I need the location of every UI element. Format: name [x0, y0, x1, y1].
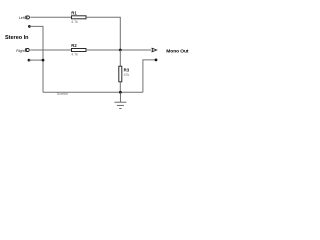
- junction output node: [119, 49, 122, 52]
- screen pin Left (dot): [28, 25, 31, 28]
- wire R1 to junction node (corner down): [86, 17, 120, 50]
- junction ground node: [119, 91, 122, 94]
- wire R3 to ground node: [119, 82, 121, 93]
- svg-text:47k: 47k: [124, 73, 130, 77]
- svg-text:Stereo In: Stereo In: [5, 35, 29, 41]
- resistor R2: [72, 49, 87, 52]
- junction screen bus / Right screen: [42, 59, 45, 62]
- terminal Left: [26, 16, 30, 19]
- wire R2 to Mono Out arrow: [86, 49, 152, 51]
- svg-text:R1: R1: [71, 10, 77, 15]
- resistor R1: [72, 16, 87, 19]
- wire Left screen pin to screen bus: [29, 26, 43, 92]
- svg-text:Right: Right: [16, 49, 24, 53]
- screen pin Mono Out (dot): [155, 59, 158, 62]
- wire screen bus to Mono Out screen pin: [143, 60, 156, 92]
- svg-text:Left: Left: [19, 16, 25, 20]
- ground symbol: [114, 92, 126, 108]
- svg-text:R3: R3: [124, 68, 130, 73]
- output terminal arrow Mono Out: [152, 48, 157, 52]
- svg-text:4.7k: 4.7k: [71, 20, 78, 24]
- wire Left terminal to R1: [30, 16, 71, 18]
- svg-text:R2: R2: [71, 43, 77, 48]
- terminal Right: [26, 48, 30, 51]
- wire Right screen pin to screen bus: [29, 59, 43, 61]
- wire screen bus bottom: [43, 91, 143, 93]
- wire Right terminal to R2: [30, 49, 71, 51]
- screen pin Right (dot): [28, 59, 31, 62]
- wire junction node to R3: [119, 50, 121, 66]
- resistor R3: [119, 66, 122, 82]
- svg-text:Screen: Screen: [57, 92, 68, 96]
- svg-text:Mono Out: Mono Out: [166, 49, 189, 55]
- svg-text:4.7k: 4.7k: [71, 52, 78, 56]
